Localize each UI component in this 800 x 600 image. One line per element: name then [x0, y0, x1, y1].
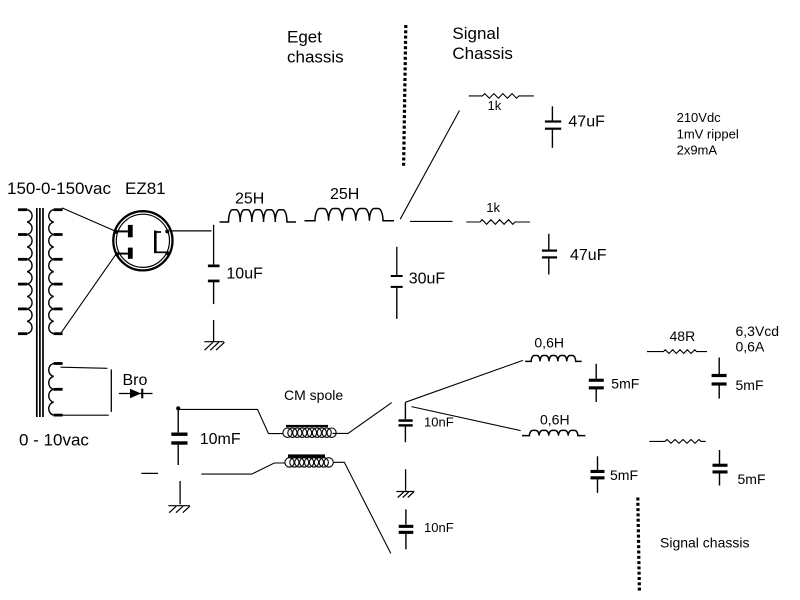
wire bridge vertical: [110, 369, 112, 412]
capacitor C2 30uF: [391, 275, 403, 319]
diode D1 bridge symbol: [119, 389, 153, 399]
wire choke1 right to node: [333, 403, 392, 434]
wire C6 to ground: [405, 469, 407, 491]
tube V1 anode plate 1: [114, 225, 133, 237]
svg-text:10nF: 10nF: [424, 415, 454, 430]
wire node to L4: [412, 407, 521, 431]
svg-text:0,6H: 0,6H: [540, 412, 570, 428]
capacitor C5 10mF: [171, 408, 187, 465]
svg-text:CM spole: CM spole: [284, 387, 343, 403]
svg-text:Signal: Signal: [452, 24, 499, 43]
svg-text:5mF: 5mF: [738, 471, 766, 487]
wire HT top to tube anode: [62, 208, 115, 231]
wire junction right to R2: [410, 220, 453, 222]
svg-text:1mV rippel: 1mV rippel: [677, 126, 739, 141]
label Signal Chassis (top): [452, 24, 512, 63]
wire HT bottom to tube anode 2: [61, 254, 116, 332]
tube V1 anode plate 2: [115, 248, 133, 259]
svg-text:48R: 48R: [670, 328, 696, 344]
wire heater winding top to bridge: [61, 367, 108, 368]
wire choke2 right down to C7 bottom: [334, 462, 391, 553]
chassis divider dotted line (top): [404, 25, 406, 167]
transformer T1 secondary HT winding (right upper): [49, 210, 63, 334]
svg-text:30uF: 30uF: [409, 271, 446, 288]
svg-text:10mF: 10mF: [200, 431, 241, 448]
transformer T1 heater winding 0-10vac (right lower): [49, 364, 63, 416]
inductor L1 25H: [220, 210, 296, 222]
wire heater winding bottom to bridge: [61, 414, 109, 416]
resistor R2 1k: [466, 220, 530, 225]
svg-text:6,3Vcd: 6,3Vcd: [736, 323, 780, 339]
CM choke winding 1 (top): [283, 425, 336, 438]
capacitor C3 47uF: [545, 106, 561, 148]
wire to ground below C5: [179, 481, 181, 504]
svg-text:25H: 25H: [330, 186, 359, 203]
svg-text:5mF: 5mF: [611, 376, 639, 392]
node junction at C1: [213, 225, 215, 265]
svg-text:10nF: 10nF: [424, 520, 454, 535]
inductor L4 0,6H: [522, 430, 585, 435]
svg-text:0 - 10vac: 0 - 10vac: [19, 431, 89, 450]
capacitor C11 5mF: [713, 450, 728, 486]
svg-text:210Vdc: 210Vdc: [677, 110, 722, 125]
svg-text:5mF: 5mF: [610, 467, 638, 483]
svg-text:2x9mA: 2x9mA: [677, 143, 718, 158]
svg-text:EZ81: EZ81: [125, 179, 166, 198]
svg-text:47uF: 47uF: [568, 113, 605, 130]
wire node to CM choke top: [179, 409, 284, 433]
wire tube cathode output: [170, 230, 212, 232]
svg-text:1k: 1k: [488, 98, 502, 113]
svg-text:Signal chassis: Signal chassis: [660, 535, 750, 551]
ground below C1: [204, 342, 224, 351]
svg-text:25H: 25H: [235, 191, 264, 208]
annotation 210Vdc 1mV rippel 2x9mA: [677, 110, 739, 158]
capacitor C7 10nF: [399, 509, 414, 549]
svg-text:5mF: 5mF: [736, 377, 764, 393]
tube V1 cathode bracket: [154, 229, 170, 255]
capacitor C1 10uF: [208, 264, 220, 304]
wire C5 bottom to CM choke lower: [201, 463, 285, 474]
capacitor C4 47uF: [542, 234, 557, 275]
inductor L3 0,6H: [525, 356, 581, 362]
svg-text:150-0-150vac: 150-0-150vac: [7, 179, 111, 198]
CM choke winding 2 (bottom): [285, 454, 333, 467]
svg-text:0,6H: 0,6H: [534, 335, 564, 351]
resistor R4: [649, 440, 705, 444]
wire stub left of C5 bottom: [141, 472, 158, 474]
svg-text:Chassis: Chassis: [452, 44, 512, 63]
svg-text:chassis: chassis: [287, 47, 344, 66]
wire junction up to R1: [400, 111, 459, 220]
svg-text:1k: 1k: [486, 200, 500, 215]
wire C1 to ground: [213, 320, 215, 342]
transformer T1 primary winding 150-0-150vac (left): [18, 210, 32, 334]
wire node to L3: [405, 360, 523, 402]
capacitor C9 5mF: [712, 358, 727, 399]
tube V1 EZ81 envelope: [113, 211, 172, 270]
wire junction down to C2: [396, 247, 398, 275]
transformer T1 core: [37, 208, 43, 417]
capacitor C8 5mF: [589, 364, 604, 402]
inductor L2 25H: [305, 209, 395, 221]
resistor R3 48R: [647, 350, 707, 354]
ground below C5: [168, 506, 190, 513]
svg-text:Bro: Bro: [123, 372, 148, 389]
svg-text:10uF: 10uF: [226, 266, 263, 283]
node junction dot at C5: [176, 406, 180, 410]
label Eget chassis: [287, 28, 344, 67]
capacitor C10 5mF: [591, 456, 605, 493]
svg-text:Eget: Eget: [287, 28, 322, 47]
capacitor C6 10nF: [399, 403, 413, 443]
annotation 6,3Vcd 0,6A: [736, 323, 780, 354]
svg-text:47uF: 47uF: [570, 247, 607, 264]
svg-text:0,6A: 0,6A: [736, 338, 765, 354]
resistor R1 1k: [469, 94, 534, 99]
chassis divider dotted line (bottom): [638, 498, 640, 592]
ground below C6: [396, 492, 414, 498]
